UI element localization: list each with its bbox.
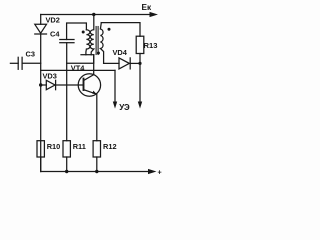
transistor VT4 xyxy=(78,74,100,96)
svg-text:R12: R12 xyxy=(103,142,117,151)
polarity dot W1 bottom xyxy=(97,52,100,55)
wire secondary top to R13 xyxy=(101,23,140,37)
resistor R12 xyxy=(93,141,100,157)
wire winding bottom to base line xyxy=(67,55,94,64)
wire output left (to УЭ) xyxy=(114,70,116,103)
svg-text:Eк: Eк xyxy=(142,3,152,12)
svg-text:VD2: VD2 xyxy=(46,16,60,25)
wire top rail xyxy=(41,14,151,16)
transformer winding W2 (left, feedback) xyxy=(86,30,90,55)
svg-text:C4: C4 xyxy=(50,30,60,39)
wire C4 bottom / base / R11 vertical xyxy=(66,43,68,141)
wire emitter xyxy=(84,90,97,141)
node junction dot R11 rail xyxy=(65,170,68,173)
capacitor C3 xyxy=(10,62,18,64)
polarity dot W2 xyxy=(82,31,85,34)
node junction dot R12 rail xyxy=(95,170,98,173)
wire VD3 to base xyxy=(56,84,84,86)
diode VD2 xyxy=(35,24,47,33)
resistor R10 xyxy=(37,141,44,157)
wire collector xyxy=(84,55,94,81)
transformer winding W1 (primary) xyxy=(90,15,94,55)
node junction dot VD4-R13 xyxy=(138,62,141,65)
svg-text:VD3: VD3 xyxy=(43,71,57,80)
diode VD3 xyxy=(41,84,47,86)
wire left vertical node A xyxy=(40,15,42,25)
wire node A to output (horizontal) xyxy=(41,69,115,71)
svg-text:VD4: VD4 xyxy=(113,48,128,57)
resistor R11 xyxy=(63,141,70,157)
winding bottom bar xyxy=(81,54,94,56)
capacitor C4 xyxy=(60,39,74,41)
wire bottom rail xyxy=(40,157,42,172)
wire C4 riser to winding W2 xyxy=(67,23,87,40)
polarity dot W3 top xyxy=(108,28,111,31)
transformer winding W3 (secondary) xyxy=(100,23,103,64)
wire W3 bottom to VD4 xyxy=(104,62,119,64)
node junction dot top rail xyxy=(92,13,95,16)
svg-text:VT4: VT4 xyxy=(71,64,85,73)
node junction dot VD3 xyxy=(39,83,42,86)
wire output right (to УЭ) xyxy=(139,63,141,103)
diode VD4 xyxy=(119,58,129,69)
wire R13 bottom xyxy=(139,54,141,64)
resistor R13 xyxy=(136,36,144,53)
svg-text:+: + xyxy=(158,168,162,177)
transformer core xyxy=(95,27,97,55)
svg-text:C3: C3 xyxy=(26,50,35,59)
svg-text:УЭ: УЭ xyxy=(119,103,130,112)
svg-text:R13: R13 xyxy=(144,41,158,50)
node Ek arrow xyxy=(150,12,159,17)
svg-text:R10: R10 xyxy=(47,142,61,151)
svg-text:R11: R11 xyxy=(73,142,86,151)
